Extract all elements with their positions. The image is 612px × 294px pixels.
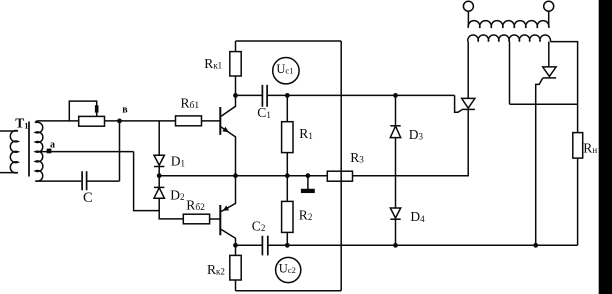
node v junction dot	[117, 119, 122, 124]
wire C2	[236, 244, 263, 246]
wire v to D1 branch and Rb1 handled above; diode D1	[158, 121, 160, 155]
svg-text:Rн: Rн	[583, 140, 597, 155]
resistor Rb1	[176, 116, 202, 126]
voltmeter Uc2	[276, 257, 301, 282]
wire node v down to capacitor C wire	[119, 121, 121, 181]
D1 D2 junction dot	[157, 173, 162, 178]
T1 secondary bottom lead	[35, 180, 81, 182]
svg-text:Rб1: Rб1	[181, 96, 200, 111]
output transformer primary winding	[468, 21, 549, 28]
svg-text:Rк1: Rк1	[204, 56, 222, 71]
diode D3 branch dot	[393, 93, 398, 98]
C1 R1 junction dot	[285, 93, 290, 98]
transformer T1 core	[28, 122, 30, 177]
svg-text:R2: R2	[299, 207, 313, 222]
thyristor VS1 gate wire	[455, 95, 462, 112]
thyristor VS2 anode wire	[548, 42, 550, 67]
transistor Q1	[219, 107, 221, 135]
VS2 gate rail dot	[533, 243, 538, 248]
svg-text:D2: D2	[170, 187, 184, 202]
svg-text:C: C	[83, 190, 93, 206]
wire capacitor C to v vertical	[87, 180, 120, 182]
capacitor C plates	[82, 171, 87, 190]
bottom box wire	[236, 290, 342, 292]
diode D4	[390, 208, 400, 218]
svg-text:a: a	[50, 140, 55, 151]
wire node a tap	[35, 151, 133, 153]
svg-text:D3: D3	[409, 127, 424, 142]
load resistor Rn	[573, 133, 583, 159]
ground symbol junction dot	[306, 173, 311, 178]
transformer T1 primary top lead	[0, 130, 18, 132]
svg-text:D1: D1	[171, 154, 185, 169]
node a junction dot	[47, 149, 52, 154]
output transformer secondary winding	[468, 35, 551, 42]
Rk1 collector junction dot	[233, 93, 238, 98]
thyristor VS1	[462, 98, 475, 108]
wire C1	[236, 94, 263, 96]
transformer T1 primary bottom lead	[0, 172, 18, 174]
wire Rb2 to Q2 base	[210, 218, 220, 220]
output transformer terminal right	[544, 1, 554, 11]
svg-text:Rб2: Rб2	[186, 198, 205, 213]
right black margin bar	[599, 0, 612, 294]
box right edge	[340, 41, 342, 291]
rail dot R1 R2	[285, 173, 290, 178]
voltmeter Uc1	[273, 57, 299, 83]
thyristor VS2	[543, 67, 556, 77]
potentiometer body	[79, 116, 105, 126]
resistor R2	[286, 176, 288, 246]
secondary center tap	[509, 42, 511, 105]
ground symbol	[307, 176, 309, 189]
transistor Q2	[219, 205, 221, 235]
diode D2	[158, 176, 160, 188]
resistor Rk1	[235, 41, 237, 95]
wire Rb1 to Q1 base	[202, 120, 220, 122]
secondary left end drop	[467, 42, 469, 99]
transformer T1 primary winding	[10, 131, 18, 173]
svg-text:C1: C1	[257, 105, 271, 120]
svg-text:D4: D4	[410, 209, 425, 224]
wire C1 to VS1 gate	[267, 94, 455, 96]
potentiometer arrowhead	[95, 105, 99, 112]
svg-text:Rк2: Rк2	[207, 262, 225, 277]
center tap horizontal wire	[510, 103, 578, 105]
secondary right end wire	[550, 42, 577, 133]
Q2 collector dot	[233, 243, 238, 248]
resistor Rb2	[183, 214, 209, 224]
R2 C2 dot	[285, 243, 290, 248]
wire a to Rb2 node vertical	[134, 152, 160, 211]
capacitor C2 plates	[262, 236, 267, 256]
wire C2 output rail	[268, 244, 578, 246]
D4 rail dot	[393, 243, 398, 248]
svg-text:R1: R1	[299, 126, 313, 141]
svg-text:T1: T1	[15, 116, 28, 131]
thyristor VS2 gate wire down to rail	[536, 78, 543, 245]
T1 secondary top lead	[35, 121, 78, 123]
rail dot Q1 emitter	[233, 173, 238, 178]
potentiometer wiper loop wire	[69, 101, 96, 121]
resistor R3	[327, 171, 352, 181]
svg-text:C2: C2	[252, 218, 266, 233]
top supply wire	[236, 40, 342, 42]
diode D3	[395, 95, 397, 125]
output transformer terminal left	[463, 1, 473, 11]
svg-text:в: в	[122, 105, 128, 116]
capacitor C1 plates	[262, 85, 267, 107]
transformer T1 secondary winding	[35, 122, 43, 181]
middle rail	[159, 109, 468, 175]
resistor R1	[286, 95, 288, 175]
resistor Rk2	[235, 245, 237, 290]
wire pot to node v and Rb1	[105, 120, 176, 122]
svg-text:R3: R3	[350, 150, 364, 165]
